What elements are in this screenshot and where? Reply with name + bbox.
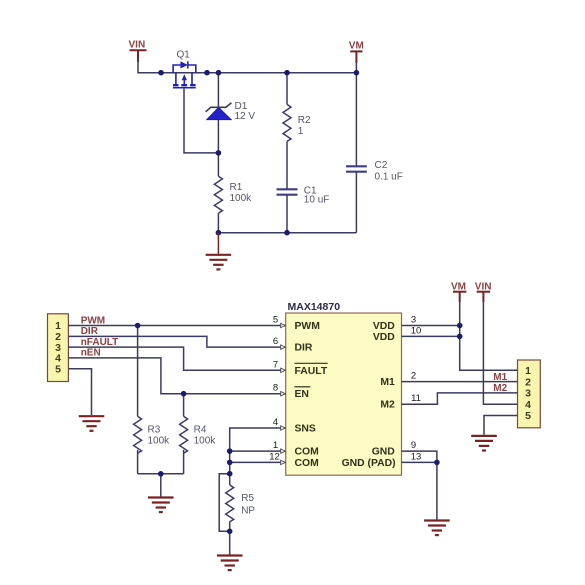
- svg-text:R2: R2: [298, 115, 311, 126]
- svg-text:R5: R5: [241, 493, 254, 504]
- svg-text:3: 3: [411, 315, 416, 326]
- svg-text:PWM: PWM: [295, 321, 320, 332]
- svg-text:EN: EN: [295, 389, 309, 400]
- svg-text:VIN: VIN: [129, 40, 146, 51]
- svg-text:2: 2: [411, 371, 416, 382]
- svg-text:VM: VM: [451, 282, 466, 293]
- svg-text:100k: 100k: [194, 436, 217, 447]
- svg-text:COM: COM: [295, 458, 319, 469]
- svg-text:VIN: VIN: [475, 282, 492, 293]
- svg-text:12 V: 12 V: [235, 111, 256, 122]
- svg-text:M2: M2: [380, 400, 395, 411]
- svg-text:2: 2: [525, 376, 531, 388]
- svg-text:13: 13: [411, 451, 422, 462]
- svg-text:M2: M2: [493, 383, 507, 394]
- svg-text:7: 7: [273, 359, 278, 370]
- svg-text:9: 9: [411, 440, 416, 451]
- svg-text:100k: 100k: [230, 193, 253, 204]
- svg-text:nEN: nEN: [81, 348, 101, 359]
- svg-text:5: 5: [525, 410, 531, 422]
- svg-text:FAULT: FAULT: [295, 366, 328, 377]
- svg-text:5: 5: [273, 315, 278, 326]
- svg-text:1: 1: [273, 440, 278, 451]
- svg-text:nFAULT: nFAULT: [81, 337, 119, 348]
- svg-text:M1: M1: [493, 372, 507, 383]
- svg-text:10 uF: 10 uF: [304, 195, 330, 206]
- svg-text:DIR: DIR: [81, 326, 99, 337]
- svg-text:VDD: VDD: [373, 321, 395, 332]
- svg-text:VDD: VDD: [373, 332, 395, 343]
- svg-text:10: 10: [411, 325, 422, 336]
- svg-text:5: 5: [55, 363, 61, 375]
- svg-text:VM: VM: [349, 41, 364, 52]
- svg-text:GND: GND: [372, 447, 396, 458]
- svg-text:GND (PAD): GND (PAD): [342, 458, 396, 469]
- svg-text:4: 4: [273, 417, 278, 428]
- svg-text:1: 1: [298, 126, 304, 137]
- svg-text:6: 6: [273, 336, 278, 347]
- svg-text:Q1: Q1: [177, 50, 191, 61]
- svg-text:4: 4: [525, 399, 531, 411]
- svg-text:8: 8: [273, 383, 278, 394]
- svg-text:0.1 uF: 0.1 uF: [375, 172, 403, 183]
- svg-text:100k: 100k: [148, 436, 171, 447]
- svg-text:R1: R1: [230, 182, 243, 193]
- svg-text:SNS: SNS: [295, 424, 316, 435]
- svg-text:PWM: PWM: [81, 315, 105, 326]
- svg-text:1: 1: [525, 365, 531, 377]
- svg-text:C2: C2: [375, 160, 388, 171]
- svg-text:M1: M1: [380, 377, 395, 388]
- svg-text:3: 3: [525, 388, 531, 400]
- svg-text:12: 12: [269, 451, 280, 462]
- svg-text:DIR: DIR: [295, 343, 313, 354]
- svg-text:R3: R3: [148, 425, 161, 436]
- svg-text:COM: COM: [295, 447, 319, 458]
- svg-text:NP: NP: [241, 506, 255, 517]
- svg-text:MAX14870: MAX14870: [288, 301, 341, 313]
- svg-text:11: 11: [411, 393, 421, 404]
- svg-text:R4: R4: [194, 425, 207, 436]
